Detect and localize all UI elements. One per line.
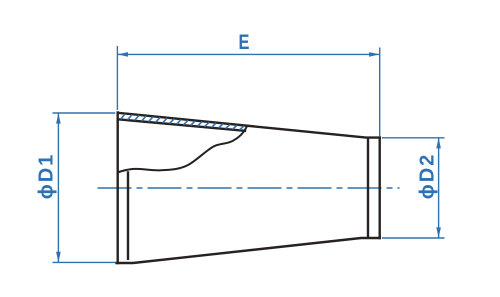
right face: [379, 138, 381, 238]
D1 extension line bottom: [53, 261, 116, 263]
E arrow left: [117, 52, 128, 57]
D2 dimension line: [438, 138, 440, 238]
right tangent line: [367, 139, 369, 236]
D2 arrow top: [436, 138, 441, 149]
dimension D2: [382, 138, 445, 238]
left tangent line: [127, 173, 129, 259]
D1 extension line top: [53, 112, 116, 114]
D2 extension line top: [382, 137, 445, 139]
top outline: [118, 113, 380, 138]
dimension E: [117, 46, 379, 136]
D1 arrow top: [56, 113, 61, 124]
centerline: [98, 187, 400, 189]
D1 arrow bottom: [56, 252, 61, 263]
svg-text:ϕD2: ϕD2: [417, 153, 439, 200]
D2 arrow bottom: [436, 227, 441, 238]
E extension line left: [116, 46, 118, 110]
E dimension line: [117, 53, 379, 55]
reducer body outline: [117, 113, 380, 264]
D2 extension line bottom: [382, 237, 445, 239]
D1 dimension line: [57, 113, 59, 262]
svg-text:ϕD1: ϕD1: [36, 153, 58, 200]
break line: [118, 127, 247, 173]
svg-text:E: E: [239, 30, 250, 53]
dimension D1: [53, 113, 116, 262]
hatching (section): [121, 114, 245, 130]
E arrow right: [369, 52, 380, 57]
inner section wall line: [118, 119, 245, 131]
left face: [116, 113, 118, 264]
E extension line right: [379, 48, 381, 137]
bottom outline: [117, 238, 380, 263]
